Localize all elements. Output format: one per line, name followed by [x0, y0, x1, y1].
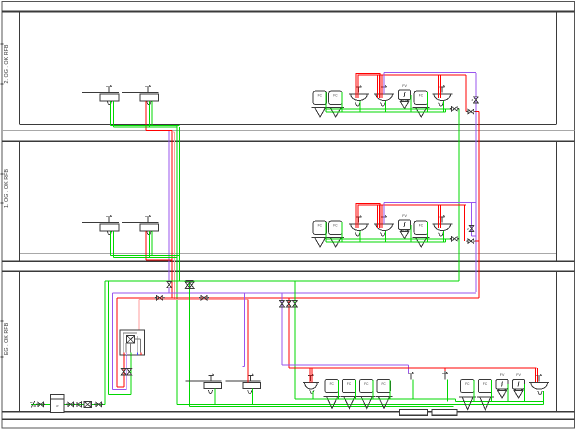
- cold stub WC B1: [325, 222, 327, 242]
- drain washbasin B1: [359, 231, 361, 242]
- drain below circulation tap: [412, 379, 414, 399]
- svg-text:FC: FC: [381, 382, 386, 386]
- cold water run EG right low A: [295, 399, 456, 402]
- hot water pipe from sink S4 down: [145, 231, 147, 260]
- cold water riser down left-center A: [176, 125, 178, 404]
- hot water pair to washbasin A3: [439, 75, 441, 98]
- svg-text:FV: FV: [500, 373, 505, 377]
- floor channel 2: [432, 409, 457, 415]
- cold water line B lower: [326, 239, 446, 242]
- washbasin B2: [374, 215, 394, 236]
- cold stub WC E4: [389, 380, 391, 399]
- hot water distribution main EG: [117, 297, 479, 299]
- circulation return riser down left-center: [172, 132, 175, 300]
- boiler hot U-loop: [117, 298, 124, 387]
- ground slab lower line: [2, 418, 575, 420]
- urinal E2 with flush valve: [513, 373, 525, 398]
- svg-text:FC: FC: [318, 224, 323, 228]
- svg-text:z: z: [467, 227, 469, 231]
- roof line 2.OG ceiling: [2, 11, 575, 13]
- svg-text:1. OG . OK RFB: 1. OG . OK RFB: [4, 169, 10, 208]
- slab 2.OG/1.OG gray level line: [2, 130, 575, 132]
- WC E2: [341, 379, 358, 408]
- draw-off tap on hot run: [442, 368, 448, 379]
- cold water riser right: [458, 109, 460, 281]
- shutoff valve V1: [36, 402, 45, 406]
- hot water drop to EG right group: [287, 298, 292, 368]
- drain washbasin E3: [542, 391, 544, 402]
- drain below hot run tap: [447, 379, 449, 401]
- hot water supply line B: [378, 205, 466, 228]
- cold water run EG right low C: [430, 403, 543, 405]
- circulation run EG right: [282, 365, 409, 372]
- cold branch with double shutoff valves: [185, 281, 194, 407]
- sink E2 EG: [226, 374, 261, 394]
- cold water line A upper with valve: [326, 107, 459, 111]
- svg-text:EG . OK RFB: EG . OK RFB: [4, 322, 10, 355]
- boiler / hot water storage: [120, 330, 144, 355]
- WC E6: [477, 379, 494, 409]
- cold stub urinal E1: [507, 384, 509, 402]
- sink S1 2.OG: [82, 85, 119, 105]
- water service entry: [30, 401, 105, 408]
- cold stub urinal B: [410, 225, 412, 242]
- cold stub WC A1: [325, 92, 327, 112]
- sink S4 1.OG: [122, 215, 158, 235]
- cold stub WC E1: [337, 380, 339, 399]
- cold water run EG right low B: [456, 402, 544, 405]
- urinal B with flush valve: [399, 214, 411, 239]
- drain washbasin B2: [384, 231, 386, 242]
- svg-text:FV: FV: [402, 214, 407, 218]
- cold water pipe from sink S2 down: [149, 101, 152, 127]
- cold water pipes from sink S4 down: [149, 231, 152, 258]
- valve on circulation riser 2.OG: [471, 97, 478, 103]
- cold stub WC A2: [341, 92, 343, 112]
- hot water run in slab 1.OG: [146, 259, 172, 261]
- svg-text:FC: FC: [333, 94, 338, 98]
- washbasin A2: [374, 85, 394, 106]
- hot water run in slab to riser: [146, 130, 172, 132]
- drain washbasin A3: [443, 101, 445, 112]
- cold water run in slab 1.OG: [110, 256, 179, 258]
- hot water run EG right: [289, 367, 537, 369]
- svg-text:FC: FC: [483, 382, 488, 386]
- cold water run in slab to riser: [110, 125, 179, 127]
- svg-text:FC: FC: [465, 382, 470, 386]
- check valve: [77, 402, 81, 407]
- WC B1: [312, 221, 329, 247]
- hot water riser down left-center: [171, 131, 173, 298]
- cold stub urinal A: [410, 95, 412, 112]
- cold water distribution main EG: [105, 280, 459, 282]
- draw-off tap on circulation: [408, 372, 413, 380]
- cold water line A lower: [326, 109, 446, 112]
- cold stub WC E5: [473, 380, 475, 402]
- sink E1 EG: [186, 374, 222, 394]
- circulation riser right: [475, 73, 477, 292]
- cold stub WC B2: [341, 222, 343, 242]
- WC E1: [324, 379, 341, 408]
- valve on hot distribution left: [155, 296, 165, 301]
- svg-text:2. OG . OK RFB: 2. OG . OK RFB: [4, 44, 10, 83]
- shutoff valve V2: [66, 402, 75, 406]
- circulation jog 1.OG: [467, 202, 476, 236]
- ground slab upper line: [2, 411, 575, 413]
- slab 2.OG/1.OG upper line: [19, 124, 556, 126]
- slab 1.OG/EG gray level line: [19, 253, 556, 255]
- drain washbasin A2: [384, 101, 386, 112]
- boiler cold U-loop bottom: [109, 355, 131, 395]
- washbasin E1: [303, 374, 319, 394]
- sink S2 2.OG: [122, 85, 158, 105]
- bottom cold water run A: [177, 404, 456, 406]
- left wall: [18, 12, 20, 412]
- floor channel 1: [400, 409, 428, 415]
- hot water connection to riser 1.OG: [465, 205, 479, 243]
- WC A3: [413, 91, 430, 117]
- water meter: [51, 395, 65, 413]
- circulation return run EG: [139, 300, 248, 330]
- sink S3 1.OG: [82, 215, 119, 235]
- svg-text:FC: FC: [364, 382, 369, 386]
- svg-text:FV: FV: [516, 373, 521, 377]
- hot water loop B washbasin1: [356, 204, 382, 228]
- bottom cold water run B: [190, 405, 454, 407]
- WC E3: [358, 379, 375, 408]
- cold stub WC E6: [491, 380, 493, 402]
- valve on hot distribution right: [199, 296, 209, 301]
- drain washbasin B3: [443, 231, 445, 242]
- WC E5: [459, 379, 476, 409]
- circulation riser down left-center: [168, 131, 170, 281]
- circulation distribution main EG: [113, 292, 476, 294]
- cold stub WC E2: [355, 380, 357, 399]
- circulation drop to EG right group: [280, 293, 285, 365]
- cold stub WC A3: [426, 92, 428, 112]
- svg-text:FC: FC: [318, 94, 323, 98]
- svg-text:FC: FC: [419, 94, 424, 98]
- cold water line B upper with valve: [326, 237, 459, 241]
- washbasin B1: [349, 215, 369, 236]
- hot water riser right: [478, 112, 480, 298]
- hot water pipe from sink S2 down: [145, 101, 147, 131]
- valve on circulation riser: [167, 282, 172, 288]
- hot water loop A washbasin1: [356, 74, 382, 98]
- slab 2.OG/1.OG lower ceiling line: [2, 140, 575, 142]
- svg-text:z: z: [471, 98, 473, 102]
- valves below boiler: [121, 369, 131, 375]
- boiler circulation U-loop: [113, 293, 127, 390]
- hot water connection to riser 2.OG: [466, 75, 479, 114]
- circulation line B: [384, 202, 476, 224]
- hot water drop to sink E2: [247, 300, 249, 383]
- cold stub urinal E2: [524, 384, 526, 402]
- boiler connection stubs: [124, 353, 141, 356]
- drain pipe sink E2: [252, 389, 254, 405]
- hot water drop to washbasin E3: [536, 368, 538, 387]
- level label EG OK RFB: [1, 321, 11, 357]
- washbasin A1: [349, 85, 369, 106]
- circulation line A: [384, 72, 476, 94]
- hot water supply line A: [378, 75, 466, 98]
- cold stub WC E3: [372, 380, 374, 399]
- level label 1.OG OK RFB: [1, 169, 11, 208]
- svg-text:FC: FC: [333, 224, 338, 228]
- cold water pipes from sink S3 down: [110, 231, 113, 258]
- cold water drop to EG right group: [293, 281, 298, 399]
- WC E4: [376, 379, 393, 408]
- urinal E1 with flush valve: [496, 373, 508, 398]
- drain washbasin A1: [359, 101, 361, 112]
- shutoff valve V3: [94, 402, 103, 406]
- circulation drop stub: [243, 293, 245, 367]
- washbasin A3: [432, 85, 452, 106]
- WC A2: [327, 91, 344, 117]
- slab 1.OG/EG lower ceiling line: [2, 270, 575, 272]
- slab 1.OG/EG upper line: [2, 260, 575, 262]
- circulation riser lower part: [168, 288, 170, 293]
- cold feed risers to boiler and meter: [105, 281, 109, 405]
- WC B2: [327, 221, 344, 247]
- svg-text:FC: FC: [330, 382, 335, 386]
- hot water pair into washbasin E1: [310, 368, 312, 382]
- washbasin B3: [432, 215, 452, 236]
- drain washbasin E1: [312, 391, 314, 399]
- WC A1: [312, 91, 329, 117]
- right wall: [556, 12, 558, 412]
- hot water pair to washbasin B3: [439, 205, 441, 228]
- svg-text:FV: FV: [402, 84, 407, 88]
- filter: [84, 401, 91, 407]
- drain pipe sink E1: [214, 389, 216, 405]
- cold stub WC B3: [426, 222, 428, 242]
- svg-text:FC: FC: [347, 382, 352, 386]
- cold water pipe from sink S1 down: [110, 101, 113, 127]
- cold water riser down left-center B: [179, 127, 181, 281]
- svg-text:FC: FC: [419, 224, 424, 228]
- urinal A with flush valve: [399, 84, 411, 109]
- washbasin E3: [529, 374, 549, 394]
- level label 2.OG OK RFB: [1, 44, 11, 84]
- WC B3: [413, 221, 430, 247]
